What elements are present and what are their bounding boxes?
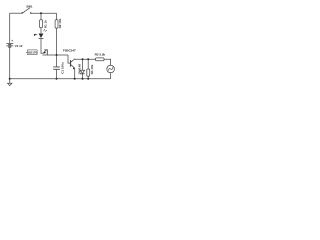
wire collector rail right: [75, 58, 96, 60]
transistor Q1 base bar: [70, 60, 72, 67]
label box BS170 frame: [27, 50, 37, 55]
svg-text:R2 10k: R2 10k: [58, 18, 62, 28]
svg-text:T0BC547: T0BC547: [63, 49, 76, 53]
buzzer BZ1 circle: [107, 65, 115, 73]
wire R1 to LED: [40, 28, 42, 34]
wire bottom rail: [10, 78, 111, 80]
transistor T1 arrow lead: [43, 50, 46, 53]
node dot cap bottom: [56, 78, 58, 80]
node dot ground corner: [9, 78, 11, 80]
transistor Q1 collector: [71, 59, 75, 62]
battery V1 plates: [6, 43, 13, 46]
transistor Q1 emitter arrowhead: [73, 68, 75, 70]
switch SW1 lever: [22, 8, 30, 13]
node dot diode bottom: [82, 78, 84, 80]
wire left rail lower: [9, 47, 11, 78]
wire R4 branch top: [87, 59, 89, 69]
svg-text:1N4148: 1N4148: [78, 64, 82, 75]
node dot R4 bottom: [87, 78, 89, 80]
node dot R4 top: [87, 58, 89, 60]
LED D2 emission arrow 2: [45, 30, 47, 32]
transistor T1 top stub: [44, 49, 47, 51]
wire diode D1 branch top: [82, 59, 84, 70]
wire R4 bottom: [87, 76, 89, 79]
wire diode D1 bottom: [82, 74, 84, 79]
svg-text:R1 1k: R1 1k: [43, 20, 47, 28]
LED D2 left arrow mark: [34, 34, 36, 37]
svg-text:BS170: BS170: [28, 51, 37, 55]
wire capacitor C1 bottom: [56, 70, 58, 79]
resistor R4 body: [87, 69, 90, 76]
svg-text:R4 10k: R4 10k: [90, 64, 94, 74]
LED D2 cathode bar: [39, 37, 44, 40]
wire capacitor C1 top: [56, 55, 58, 67]
wire R5 to right corner: [104, 59, 111, 65]
battery plus sign: [11, 40, 13, 42]
wire mid node: [43, 54, 69, 56]
LED D2 triangle: [39, 34, 44, 39]
transistor Q1 emitter: [71, 65, 75, 68]
wire base drop of Q1: [68, 55, 70, 63]
wire left rail upper: [9, 13, 11, 43]
resistor R5 body: [96, 58, 104, 61]
node dot diode top: [82, 58, 84, 60]
transistor T1 arrowhead: [43, 51, 46, 53]
wire R2 bottom to mid node: [56, 28, 58, 55]
wire LED branch top: [40, 13, 42, 20]
svg-text:V1 12: V1 12: [15, 44, 23, 48]
capacitor C1 plates: [53, 67, 60, 69]
wire circle bottom: [110, 73, 112, 79]
diode D1 bar: [80, 73, 84, 75]
label box BS170 tick: [26, 51, 28, 53]
wire Q1 emitter down: [74, 68, 76, 79]
wire LED to transistor T1 gate: [41, 39, 43, 54]
svg-text:C1 100u: C1 100u: [60, 62, 64, 74]
ground symbol stem: [9, 79, 11, 83]
resistor R1 body: [40, 20, 43, 28]
svg-text:SW1: SW1: [26, 4, 33, 8]
node dot emitter bottom: [74, 78, 76, 80]
transistor T1 drain vertical: [46, 49, 48, 55]
resistor R2 body: [55, 20, 58, 28]
wire R2 drop top: [56, 13, 58, 20]
ground symbol arrow: [8, 83, 12, 85]
switch contact left: [22, 12, 23, 13]
buzzer BZ1 sine: [108, 67, 113, 71]
node dot top LED junction: [40, 12, 42, 14]
wire top rail to switch: [10, 12, 22, 14]
svg-text:R5 3.3k: R5 3.3k: [95, 53, 106, 57]
switch contact right: [30, 12, 31, 13]
wire top rail from switch to R2 corner: [31, 12, 57, 14]
LED D2 emission arrow 1: [43, 29, 45, 31]
node dot mid cap junction: [56, 54, 58, 56]
diode D1 triangle: [80, 70, 84, 73]
